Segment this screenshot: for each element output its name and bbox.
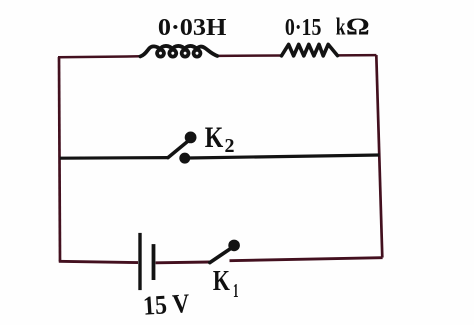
wire: top horizontal right of resistor [338,54,377,57]
svg-text:2: 2 [225,135,235,157]
switch K2 lever [168,141,188,158]
svg-text:Ω: Ω [346,14,370,41]
svg-text:0·03H: 0·03H [158,15,227,41]
wire: bottom horizontal between battery and switch K1 [156,261,210,265]
resistor R 0.15 kOhm [282,44,338,56]
wire: bottom horizontal right of switch K1 [230,258,383,261]
svg-text:k: k [336,14,346,41]
wire: top horizontal between inductor and resistor [217,54,282,57]
wire: right vertical [376,55,382,258]
svg-text:1: 1 [233,280,239,302]
wire: left vertical [59,57,60,262]
switch K2 lower contact dot [179,153,190,164]
battery short plate [152,244,156,280]
switch K1 contact dot [228,240,240,252]
svg-text:15 V: 15 V [142,288,191,321]
svg-text:0·15: 0·15 [285,14,322,41]
wire: middle branch right of switch K2 [188,155,380,158]
wire: middle branch left of switch K2 [60,156,168,160]
switch K1 lever [210,249,231,263]
switch K2 upper contact dot [185,132,197,144]
svg-text:K: K [213,265,230,297]
battery long plate [138,233,141,290]
wire: top horizontal left of inductor [58,55,141,58]
wire: bottom horizontal left of battery [59,261,138,262]
inductor L 0.03H [140,46,217,57]
svg-text:K: K [205,122,224,154]
